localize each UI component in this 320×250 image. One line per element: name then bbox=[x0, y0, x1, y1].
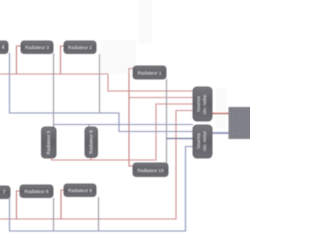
radiator 5 (vertical) bbox=[42, 127, 57, 158]
manifold supply (vertical, rotated text) bbox=[193, 87, 212, 121]
wire: radiator 3 red supply drop bbox=[17, 46, 22, 74]
wire: red riser from top bus to manifold port 1 bbox=[108, 74, 193, 91]
wire: red riser x=156 feeding vertical radiators, to manifold port 3 bbox=[52, 104, 194, 160]
svg-text:circ. retour: circ. retour bbox=[202, 131, 207, 151]
svg-text:Radiateur 2: Radiateur 2 bbox=[68, 45, 92, 50]
wire: radiator 6 red stub to bus y=160 bbox=[90, 157, 92, 160]
wire: radiator 8 red supply drop bbox=[17, 191, 21, 219]
radiator 8 bbox=[20, 185, 53, 198]
svg-text:Radiateur 8: Radiateur 8 bbox=[25, 189, 49, 194]
wire: radiator 8 gray return drop bbox=[53, 198, 55, 231]
wire: blue pipe manifold to boiler bbox=[212, 132, 229, 134]
boiler block bbox=[229, 107, 252, 139]
svg-text:Nourrice: Nourrice bbox=[196, 132, 201, 148]
radiator 6 (vertical) bbox=[85, 127, 98, 158]
svg-text:Radiateur 3: Radiateur 3 bbox=[25, 45, 49, 50]
radiator 2 bbox=[64, 41, 96, 54]
wire: blue return bus y=124.5 to manifold bbox=[54, 124, 194, 126]
svg-text:Radiateur 6: Radiateur 6 bbox=[89, 130, 94, 154]
wire: radiator 9 red supply drop bbox=[61, 190, 64, 219]
wire: radiator 1 / radiator 10 shared red riser with branch to manifold port 2 bbox=[129, 69, 133, 167]
wire: radiator 4 gray return drop to blue bus y=113 bbox=[10, 53, 194, 132]
wire: blue return bus bottom row y=231 rising to manifold port 4 bbox=[10, 147, 194, 232]
svg-text:Radiateur 9: Radiateur 9 bbox=[68, 188, 92, 193]
scan artifact streaks (very faint) bbox=[138, 0, 152, 44]
svg-text:Nourrice: Nourrice bbox=[196, 95, 201, 111]
wire: radiator 6 top stub to blue bus bbox=[88, 125, 90, 128]
svg-text:circ. radiat.: circ. radiat. bbox=[202, 94, 207, 114]
radiator 10 bbox=[133, 163, 168, 177]
wire: radiator 9 gray return drop bbox=[98, 197, 100, 231]
radiator 7 (cut off at left edge) bbox=[0, 186, 10, 199]
wire: red supply bus top row y=74 bbox=[0, 73, 108, 75]
radiator 9 bbox=[64, 184, 96, 197]
wire: radiator 2 gray return drop bbox=[99, 54, 101, 113]
wire: radiator 2 red supply drop bbox=[61, 46, 65, 74]
svg-text:7: 7 bbox=[3, 190, 6, 196]
radiator 4 (cut off at left edge) bbox=[0, 41, 8, 54]
radiator 1 bbox=[133, 66, 166, 79]
svg-text:Radiateur 1: Radiateur 1 bbox=[138, 71, 162, 76]
wire: radiator 3 gray return down to blue bus y=124.5 and radiator 5 top bbox=[53, 53, 55, 127]
svg-text:4: 4 bbox=[2, 45, 5, 51]
wire: red pipe manifold to boiler bbox=[212, 113, 229, 115]
svg-text:Radiateur 10: Radiateur 10 bbox=[137, 168, 164, 173]
wire: red supply bus bottom row y=219 rising to manifold port 4 bbox=[0, 111, 193, 220]
manifold return (vertical, rotated text) bbox=[193, 125, 212, 158]
radiator 3 bbox=[21, 41, 53, 54]
svg-text:Radiateur 5: Radiateur 5 bbox=[46, 130, 51, 154]
wire: radiator 1 / radiator 10 shared gray return with branch to manifold port 3 bbox=[166, 79, 168, 163]
